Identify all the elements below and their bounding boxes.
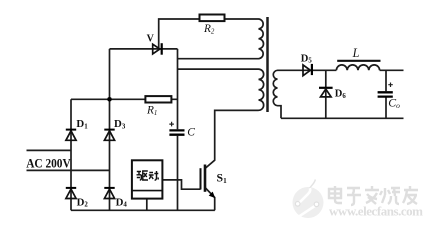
svg-text:V: V (147, 33, 155, 44)
svg-text:L: L (352, 46, 360, 60)
svg-text:www.elecfans.com: www.elecfans.com (329, 203, 423, 218)
svg-text:AC 200V: AC 200V (26, 156, 71, 170)
svg-text:C: C (187, 127, 195, 139)
